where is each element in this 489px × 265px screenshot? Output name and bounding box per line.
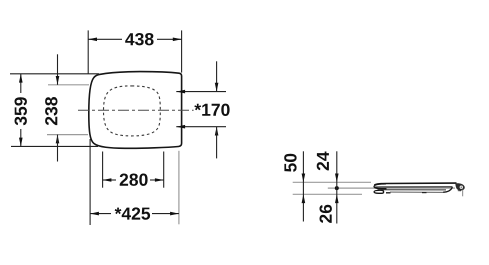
dim 359 text xyxy=(15,97,27,125)
dim 24 arrow down xyxy=(335,174,339,183)
dim 359 line upper segment xyxy=(20,74,22,93)
side profile: seat ring bottom line xyxy=(378,189,447,191)
dim *425 line left segment xyxy=(90,213,111,215)
dim 359 line lower segment xyxy=(20,129,22,146)
dim 238 upper shaft xyxy=(57,54,59,85)
side profile: hinge front arm xyxy=(443,187,453,192)
side profile: damper mark 2 xyxy=(422,192,427,194)
dim *170 upper shaft xyxy=(216,61,218,91)
dim 438 extension line right xyxy=(181,30,183,72)
dim 359 extension line bottom xyxy=(11,145,98,147)
side profile: bolt line (grey) xyxy=(462,190,464,197)
dim 238 extension line bottom (grey) xyxy=(47,134,88,136)
inner seat cutout (dashed) xyxy=(104,86,161,136)
dim *170 extension line top xyxy=(176,91,226,93)
side profile: seat ring top line xyxy=(375,186,453,188)
dim 238 arrow down (outside, tip at top ext) xyxy=(56,76,60,85)
dim 280 arrow left xyxy=(103,178,112,182)
side view: hinge axis line (grey) xyxy=(328,187,455,189)
side profile: front buffer xyxy=(374,190,384,193)
dim 438 line right segment xyxy=(157,38,182,40)
dim *425 arrow right xyxy=(170,212,179,216)
dim 238 lower shaft xyxy=(57,135,59,162)
dim 438 line left segment xyxy=(88,38,122,40)
dim 280 text xyxy=(120,174,148,186)
dim 359 arrow down xyxy=(19,138,23,147)
dim *170 ext-arrow top (points left at seat edge) xyxy=(176,90,185,94)
dim *425 extension line left xyxy=(89,139,91,225)
dim 280 line left segment xyxy=(103,179,116,181)
dim *425 extension line right (grey) xyxy=(178,151,180,225)
dim 438 extension line left xyxy=(87,30,89,73)
dim 238 text xyxy=(45,97,57,125)
dim *170 text xyxy=(194,104,229,116)
dim *170 lower shaft xyxy=(216,127,218,159)
side profile: damper mark 1 xyxy=(386,192,391,194)
dim 26 arrow up xyxy=(335,194,339,203)
side view: bottom reference line (grey) xyxy=(293,193,362,195)
dim *425 arrow left xyxy=(90,212,99,216)
side view: hinge pivot dot xyxy=(335,186,339,190)
dim 24 line xyxy=(336,151,338,223)
side profile: hinge end cap (filled) xyxy=(455,183,464,190)
dim 438 arrow right xyxy=(173,38,182,42)
dim 50 arrow up xyxy=(302,194,306,203)
dim 238 extension line top (grey) xyxy=(48,84,89,86)
dim 438 arrow left xyxy=(88,38,97,42)
dim 24 text xyxy=(317,152,329,171)
dim 280 line right segment xyxy=(150,179,164,181)
side profile: front upper cap xyxy=(374,184,386,189)
side profile: bottom edge line xyxy=(390,191,444,193)
dim 50 text xyxy=(284,154,296,172)
dim *425 text xyxy=(115,207,150,219)
dim *170 extension line bottom xyxy=(176,126,226,128)
dim 438 text xyxy=(125,33,153,45)
horizontal centerline xyxy=(78,109,194,111)
dim *170 arrow up xyxy=(215,127,219,136)
dim 280 extension line left xyxy=(102,152,104,188)
dim 359 extension line top xyxy=(10,73,99,75)
dim 50 line xyxy=(302,151,304,221)
side profile: lid top edge xyxy=(374,183,456,185)
side view: top reference line (grey) xyxy=(293,181,371,183)
dim 359 arrow up xyxy=(19,74,23,83)
side profile: hinge circle (light) xyxy=(460,186,463,189)
dim *170 ext-arrow bottom (points left at seat edge) xyxy=(176,125,185,129)
dim 280 arrow right xyxy=(155,178,164,182)
seat outline (top view) xyxy=(89,72,182,149)
dim 26 text xyxy=(320,205,332,223)
dim *170 arrow down xyxy=(215,83,219,92)
side profile: under-cap segment xyxy=(458,190,461,192)
dim 238 arrow up (outside, tip at bottom ext) xyxy=(56,135,60,144)
dim 50 arrow down xyxy=(302,174,306,183)
side profile: hinge pin dot xyxy=(461,187,462,188)
dim 280 extension line right xyxy=(163,152,165,188)
dim *425 line right segment xyxy=(152,213,179,215)
